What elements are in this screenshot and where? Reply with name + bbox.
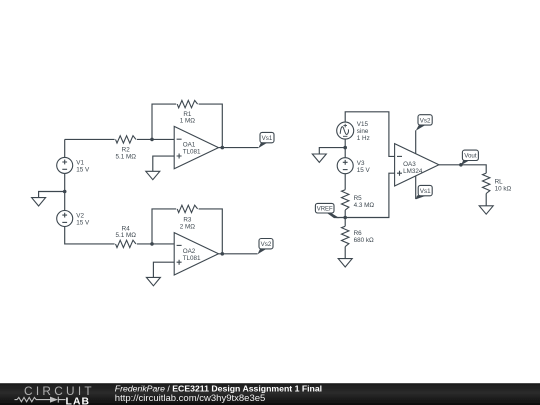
resistor R1	[177, 100, 197, 107]
voltage source V1	[57, 157, 73, 173]
resistor R2	[116, 136, 136, 143]
voltage source V2	[57, 211, 73, 227]
OA1 output wire to Vs1	[219, 147, 259, 149]
node dot V1/V2	[63, 190, 67, 194]
svg-text:Vs2: Vs2	[420, 117, 431, 124]
svg-text:OA3: OA3	[403, 161, 416, 168]
wire V1 top to R2 input corner	[64, 139, 66, 157]
wire OA3 bottom edge to Vs1 flag	[415, 176, 417, 199]
svg-text:R5: R5	[354, 195, 363, 202]
svg-text:Vs2: Vs2	[261, 241, 272, 248]
resistor R6	[342, 226, 349, 246]
svg-text:OA2: OA2	[183, 248, 196, 255]
node dot OA2 input	[150, 242, 154, 246]
node dot OA2 output	[221, 252, 225, 256]
svg-text:15 V: 15 V	[357, 167, 371, 174]
svg-text:1 MΩ: 1 MΩ	[180, 118, 195, 125]
svg-text:TL081: TL081	[183, 255, 201, 262]
svg-text:OA1: OA1	[183, 142, 196, 149]
OA2 output wire to Vs2	[219, 253, 258, 255]
wire R6 to ground E	[344, 247, 346, 259]
svg-text:5.1 MΩ: 5.1 MΩ	[115, 232, 136, 239]
svg-text:RL: RL	[495, 179, 504, 186]
wire node to ground D	[319, 148, 345, 154]
svg-text:V2: V2	[76, 213, 84, 220]
svg-text:FrederikPare / ECE3211 Design: FrederikPare / ECE3211 Design Assignment…	[115, 383, 322, 393]
wire V3 bottom to R5	[344, 173, 346, 189]
wire node to V3 top	[344, 148, 346, 158]
ground D (V15/V3 node)	[312, 154, 326, 162]
voltage source V3	[337, 158, 353, 174]
svg-text:4.3 MΩ: 4.3 MΩ	[354, 202, 375, 209]
svg-text:5.1 MΩ: 5.1 MΩ	[115, 153, 136, 160]
svg-text:V15: V15	[357, 121, 369, 128]
svg-text:V3: V3	[357, 160, 365, 167]
wire node to ground A	[39, 192, 65, 198]
svg-text:VREF: VREF	[317, 207, 333, 213]
node dot VREF	[343, 216, 347, 220]
flag Vout	[461, 150, 479, 165]
svg-text:LAB: LAB	[66, 396, 91, 405]
svg-text:2 MΩ: 2 MΩ	[180, 223, 195, 230]
ground C (OA2 plus input)	[146, 277, 160, 285]
svg-text:Vout: Vout	[464, 153, 477, 160]
flag Vs2 (left)	[258, 239, 274, 255]
op-amp OA3 LM324	[395, 144, 439, 186]
svg-text:15 V: 15 V	[76, 220, 90, 227]
wire VREF node to R6	[344, 218, 346, 227]
resistor RL	[483, 173, 490, 193]
ground A (V1/V2 midpoint)	[32, 198, 46, 206]
svg-text:Vs1: Vs1	[262, 135, 273, 142]
node dot OA1 input	[150, 138, 154, 142]
wire R5 to VREF node	[344, 210, 346, 217]
svg-text:V1: V1	[76, 160, 84, 167]
svg-text:15 V: 15 V	[76, 167, 90, 174]
ground F (below RL)	[479, 206, 493, 214]
svg-text:http://circuitlab.com/cw3hy9tx: http://circuitlab.com/cw3hy9tx8e3e5	[115, 393, 265, 404]
flag VREF	[315, 203, 339, 218]
wire node to V2 top	[64, 192, 66, 211]
OA2 feedback loop wire	[152, 209, 222, 254]
wire RL to ground F	[485, 194, 487, 206]
ground E (below R6)	[338, 259, 352, 267]
OA2 plus input wire to ground C	[153, 262, 174, 277]
wire V1 bottom to node	[64, 173, 66, 191]
logo resistor+diode symbol	[15, 397, 66, 403]
OA3 output wire to RL	[439, 165, 486, 173]
wire V15 bottom to node	[344, 138, 346, 147]
wire V15 top to OA3 minus	[345, 112, 394, 157]
svg-text:sine: sine	[357, 128, 369, 135]
svg-text:1 Hz: 1 Hz	[357, 135, 370, 142]
node dot OA1 output	[221, 146, 225, 150]
svg-text:TL081: TL081	[183, 149, 201, 156]
wire Vs2 flag to OA3 top edge	[415, 130, 417, 154]
svg-text:R6: R6	[354, 230, 363, 237]
op-amp OA1 TL081	[174, 126, 218, 168]
resistor R5	[342, 190, 349, 210]
wire V2 bottom to OA2 minus with R4	[65, 226, 175, 244]
flag Vs1 (left)	[258, 132, 274, 148]
op-amp OA2 TL081	[174, 233, 218, 275]
svg-text:680 kΩ: 680 kΩ	[354, 237, 374, 244]
resistor R3	[177, 205, 197, 212]
svg-text:Vs1: Vs1	[420, 188, 431, 195]
flag Vs1 (OA3 V-)	[416, 185, 433, 199]
OA1 feedback loop wire	[152, 104, 222, 148]
resistor R4	[116, 240, 136, 247]
node dot Vout	[459, 163, 463, 167]
voltage source V15 sine	[337, 122, 354, 139]
wire VREF node to OA3 plus	[337, 173, 395, 217]
svg-text:LM324: LM324	[403, 168, 423, 175]
wire input to OA1 minus with R2	[65, 138, 175, 140]
node dot V15/V3	[343, 146, 347, 150]
svg-text:10 kΩ: 10 kΩ	[495, 186, 512, 193]
ground B (OA1 plus input)	[146, 171, 160, 179]
flag Vs2 (OA3 V+)	[416, 115, 433, 131]
OA1 plus input wire to ground B	[153, 156, 174, 171]
